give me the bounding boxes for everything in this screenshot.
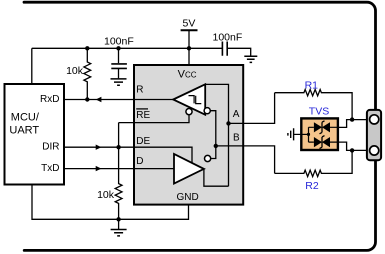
TVS suppressor box <box>301 118 338 150</box>
ground (under C2) <box>244 56 257 62</box>
svg-text:B: B <box>233 132 240 143</box>
node: A bus junction <box>350 117 354 121</box>
wire: A line out <box>229 93 275 124</box>
svg-text:TVS: TVS <box>309 106 329 118</box>
wire: TVS internal bus <box>309 127 338 142</box>
node: A junction <box>226 121 230 125</box>
ground (under C1) <box>111 79 127 85</box>
svg-text:VCC: VCC <box>178 68 197 80</box>
node: rail junctions <box>85 46 89 50</box>
svg-text:10k: 10k <box>97 189 115 201</box>
wire: receiver input A side (top corner to vertical, down to driver out) <box>205 84 228 186</box>
svg-text:UART: UART <box>9 125 39 137</box>
transceiver IC U1 <box>134 65 243 205</box>
hysteresis symbol <box>189 96 202 104</box>
MCU/UART box <box>5 84 65 185</box>
TVS diode pair (bottom, bidirectional) <box>314 137 322 147</box>
wire: ground bus at bottom <box>32 185 189 220</box>
ground (main) <box>118 219 120 229</box>
node: B bus junction <box>350 148 354 152</box>
svg-text:RxD: RxD <box>40 94 59 105</box>
wire: driver output to A vertical <box>204 169 229 186</box>
wire: 5V riser to VCC pin <box>188 30 190 65</box>
svg-text:5V: 5V <box>183 17 196 29</box>
TVS diode pair (top, bidirectional) <box>314 122 322 132</box>
node: RxD / pull-up junction <box>85 97 89 101</box>
wire: D pin to driver input <box>134 168 174 170</box>
driver amp (triangle) <box>174 154 204 184</box>
resistor 10k pull-down with RE branch <box>115 123 122 220</box>
svg-text:MCU/: MCU/ <box>11 111 40 123</box>
wire: B node to connector and TVS <box>352 149 369 151</box>
svg-text:A: A <box>233 109 240 120</box>
capacitor C2 100nF (top right) <box>222 42 227 56</box>
wire: earth to TVS bus <box>294 133 309 135</box>
arrow on RxD (points left) <box>96 97 102 102</box>
wire: RxD line <box>64 99 134 101</box>
wire: RE pin to enable bubble <box>119 115 189 123</box>
5V supply bar <box>181 29 198 31</box>
node: ground bus junction <box>116 217 120 221</box>
arrow on TxD (points right) <box>96 166 102 171</box>
wire: DE pin to driver enable <box>134 147 192 163</box>
connector pin 2 <box>370 146 379 155</box>
svg-text:GND: GND <box>176 192 198 203</box>
resistor 10k pull-up <box>84 48 91 99</box>
bubble: receiver enable <box>186 109 192 115</box>
svg-text:DIR: DIR <box>42 141 59 152</box>
svg-text:DE: DE <box>136 136 150 147</box>
arrow on DIR (points right) <box>96 145 102 150</box>
wire: TxD to D <box>64 168 134 170</box>
svg-text:100nF: 100nF <box>104 36 134 48</box>
connector pin 1 <box>370 115 379 124</box>
capacitor C1 100nF <box>118 48 120 63</box>
earth ground (TVS common) <box>288 128 294 140</box>
wire: DIR to DE <box>64 146 134 148</box>
svg-text:10k: 10k <box>66 65 84 77</box>
svg-text:RE: RE <box>136 110 150 121</box>
wire: A node to connector and TVS <box>352 119 369 121</box>
svg-text:R: R <box>136 84 143 95</box>
node: DIR junction <box>116 145 120 149</box>
wire: inverting vertical (receiver inv input to driver inv output) <box>210 111 216 159</box>
bubble: driver inverting output <box>205 155 211 161</box>
svg-text:R1: R1 <box>305 80 319 92</box>
receiver amp (triangle) <box>173 84 205 114</box>
resistor R2 <box>275 150 353 176</box>
connector J1 <box>367 110 381 160</box>
wire: R pin to receiver <box>134 99 173 101</box>
wire: top VCC rail <box>32 47 223 49</box>
bubble: receiver inverting input <box>204 108 210 114</box>
svg-text:R2: R2 <box>305 180 319 192</box>
node: B junction <box>214 144 218 148</box>
resistor R1 <box>275 90 353 120</box>
svg-text:D: D <box>136 156 143 167</box>
svg-text:TxD: TxD <box>41 163 59 174</box>
wire: B line out <box>216 146 275 174</box>
svg-text:100nF: 100nF <box>213 32 243 44</box>
wire: rail left riser to MCU top <box>31 48 33 84</box>
